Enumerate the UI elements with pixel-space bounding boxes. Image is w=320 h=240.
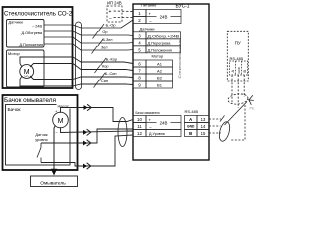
svg-text:Д.Уровня: Д.Уровня <box>149 132 165 136</box>
connector chevrons pump − <box>83 130 87 135</box>
svg-text:Син: Син <box>101 79 108 83</box>
svg-text:БУС-1: БУС-1 <box>176 3 190 9</box>
svg-text:RS-485: RS-485 <box>230 56 244 61</box>
control panel ПУ (dashed box) <box>227 31 248 81</box>
wire motor lead A1 <box>20 57 73 67</box>
svg-text:−: − <box>149 124 152 129</box>
pin 2 <box>133 17 146 24</box>
pin 15 <box>197 130 209 137</box>
svg-text:А1: А1 <box>157 62 163 67</box>
pin GND <box>185 123 198 130</box>
pin 10 <box>133 116 146 123</box>
pin A <box>185 116 198 123</box>
wire motor lead A2 <box>30 64 73 68</box>
svg-text:Мотор: Мотор <box>8 51 21 56</box>
wire pump + to pin 10 <box>61 108 134 122</box>
svg-text:Д.Обогрева: Д.Обогрева <box>21 31 42 35</box>
svg-text:РЕ: РЕ <box>250 107 256 111</box>
wire B1 run (to pin 9) <box>73 84 133 86</box>
svg-text:24В: 24В <box>160 14 168 19</box>
wire ПУ GND down (dashed) <box>237 75 239 108</box>
svg-text:В2: В2 <box>157 76 163 81</box>
pin 5 <box>133 46 146 53</box>
twist slash wire2 <box>93 31 99 39</box>
wire B2 run (to pin 8) <box>73 77 133 80</box>
box Стеклоочиститель СО-2 (wiper assembly) <box>3 7 73 88</box>
motor M1 circle <box>20 65 34 79</box>
svg-text:GND: GND <box>187 125 195 129</box>
svg-text:Датчики: Датчики <box>9 21 23 25</box>
wire motor lead B2 <box>30 76 73 80</box>
wire pump − to pin 12 <box>61 127 134 132</box>
wire pin 15 to cable (dashed) <box>209 132 221 134</box>
cable bundle ellipse (wiper cable) <box>76 22 82 90</box>
wire Д.Положения (to pin 5) <box>44 44 133 50</box>
svg-text:Д.Положения: Д.Положения <box>148 48 172 53</box>
pin 8 <box>133 74 146 81</box>
svg-text:Датчик: Датчик <box>35 133 47 137</box>
wire motor lead B1 <box>20 76 73 86</box>
svg-text:Бачок: Бачок <box>8 107 22 113</box>
twist slash wire7 <box>100 73 106 81</box>
pin 12 <box>133 130 146 137</box>
svg-text:Омыватель: Омыватель <box>40 180 66 186</box>
svg-text:Стеклоочиститель СО-2: Стеклоочиститель СО-2 <box>4 10 72 17</box>
svg-text:уровня: уровня <box>35 138 47 142</box>
svg-text:+: + <box>109 9 112 15</box>
box Бачок (tank) <box>6 105 71 166</box>
twist slash wire4 <box>92 46 98 54</box>
svg-text:В1: В1 <box>157 83 163 88</box>
svg-text:~ 24В: ~ 24В <box>32 25 42 29</box>
svg-text:Питание: Питание <box>141 3 156 8</box>
wire pin 13 to cable (dashed) <box>209 118 221 120</box>
shield to PE (crow's foot) <box>248 95 254 105</box>
svg-text:13: 13 <box>201 117 206 122</box>
svg-text:−: − <box>149 18 152 23</box>
box Датчики (sensors inside wiper) <box>7 20 45 48</box>
wire A1 run (to pin 6) <box>73 57 133 64</box>
twist slash wire8 <box>94 80 100 88</box>
twist slash wire1 <box>99 24 105 32</box>
svg-text:Бачок омывателя: Бачок омывателя <box>136 111 160 115</box>
pin B <box>185 130 198 137</box>
svg-text:ИП 24В: ИП 24В <box>107 1 122 6</box>
svg-text:ПУ: ПУ <box>235 40 241 45</box>
twist slash on diagonal <box>220 116 225 122</box>
wire switch bottom to pin 12 <box>41 135 133 166</box>
twist slash wire3 <box>98 39 104 47</box>
svg-text:Б.-Ор: Б.-Ор <box>106 23 116 27</box>
svg-text:11: 11 <box>137 124 142 129</box>
svg-text:А2: А2 <box>157 69 163 74</box>
pin 9 <box>133 81 146 88</box>
svg-text:Стеклоочиститель: Стеклоочиститель <box>178 38 182 78</box>
ПУ pin cells A GND B (dashed) <box>230 61 248 75</box>
svg-text:−: − <box>109 16 112 22</box>
box Омыватель (washer nozzle) <box>31 176 78 187</box>
svg-text:Б.Зел: Б.Зел <box>102 38 112 42</box>
shield drain down (dashed) <box>230 105 245 140</box>
pin 14 <box>197 123 209 130</box>
pump Насос label <box>57 103 75 109</box>
pipe from pump to washer (arrow) <box>54 126 56 171</box>
svg-text:14: 14 <box>201 124 206 129</box>
svg-text:М: М <box>58 118 64 125</box>
pin 3 <box>133 32 146 39</box>
pin 13 <box>197 116 209 123</box>
svg-text:Б.-Син: Б.-Син <box>105 72 117 76</box>
svg-text:RS-485: RS-485 <box>185 109 199 114</box>
pin 7 <box>133 67 146 74</box>
wire sensor ~24V (to pin 2) <box>44 20 133 28</box>
svg-text:Зел: Зел <box>101 45 108 49</box>
cable gather ellipse bottom <box>217 121 231 143</box>
svg-text:A: A <box>189 117 192 122</box>
wire switch top to pin 11 <box>41 129 133 143</box>
connector chevrons pump + <box>84 105 88 110</box>
svg-text:+: + <box>149 11 152 16</box>
svg-text:Бачок омывателя: Бачок омывателя <box>4 98 56 104</box>
wire ПУ B down (dashed) <box>243 75 245 97</box>
wire pin 14 to cable (dashed) <box>209 125 221 127</box>
svg-text:+: + <box>149 117 152 122</box>
svg-text:Д.Обогр.+24В: Д.Обогр.+24В <box>148 34 180 39</box>
svg-text:B: B <box>189 131 192 136</box>
svg-text:Д.Положения: Д.Положения <box>19 43 43 47</box>
box Мотор (wiper motor) <box>7 50 45 87</box>
value cell 24В (pins 10-11) <box>146 116 181 130</box>
svg-text:12: 12 <box>137 131 142 136</box>
svg-text:Б.-Кор: Б.-Кор <box>106 57 117 61</box>
svg-text:Мотор: Мотор <box>152 53 165 58</box>
box Бачок омывателя (washer tank assembly) <box>3 95 78 170</box>
wire ИП− to pin 2 (dashed) <box>114 17 134 19</box>
svg-text:10: 10 <box>137 117 142 122</box>
box БУС-1 (control unit) <box>133 4 209 160</box>
pin 1 <box>133 10 146 17</box>
cable bundle ellipse (washer cable) <box>118 118 127 147</box>
pin 6 <box>133 60 146 67</box>
connector chevrons switch bottom <box>83 164 87 169</box>
twist slash wire5 <box>101 58 107 66</box>
svg-text:М: М <box>24 69 30 76</box>
svg-text:Ор: Ор <box>102 30 107 34</box>
svg-text:Кор: Кор <box>102 65 108 69</box>
wire ПУ A down (dashed) <box>231 75 233 103</box>
twist slash wire6 <box>95 66 101 74</box>
connector chevrons switch top <box>83 141 87 146</box>
pin 11 <box>133 123 146 130</box>
value cell 24В (pins 1-2) <box>146 10 181 24</box>
svg-text:GND: GND <box>237 67 241 73</box>
wire Д.Обогрева (to pin 4) <box>44 37 133 43</box>
pump motor M2 <box>53 112 69 128</box>
switch contact <box>37 143 41 163</box>
wire sensor return (to pin 3) <box>44 31 133 36</box>
svg-text:Д.Перегрева: Д.Перегрева <box>148 41 172 46</box>
svg-text:15: 15 <box>201 131 206 136</box>
wire ИП+ to pin 1 (dashed) <box>114 10 134 13</box>
wire A2 run (to pin 7) <box>73 64 133 71</box>
svg-text:Датчики: Датчики <box>140 27 155 32</box>
pin 4 <box>133 39 146 46</box>
twisted pair diagonal <box>225 102 248 126</box>
power supply ИП 24В (dashed box) <box>107 6 122 22</box>
cable gather ellipse top (dashed) <box>227 93 248 105</box>
svg-text:24В: 24В <box>160 120 168 125</box>
